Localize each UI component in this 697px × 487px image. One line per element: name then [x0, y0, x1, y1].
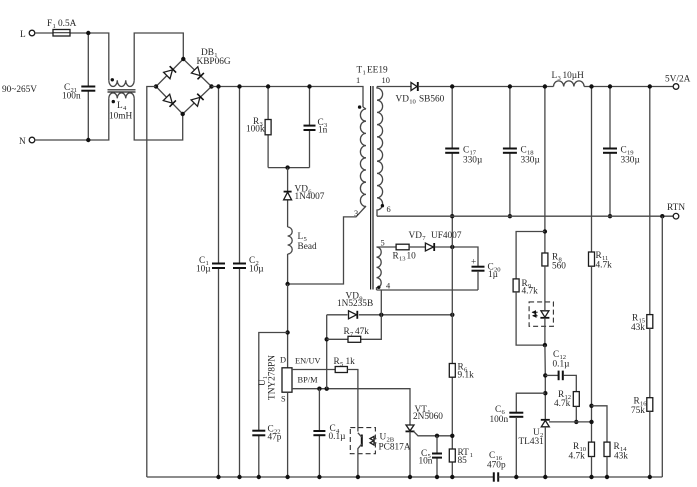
svg-text:0.1µ: 0.1µ [553, 360, 571, 370]
resistor R8 560 [542, 253, 566, 272]
svg-text:100k: 100k [246, 125, 265, 135]
capacitor C6 100n [490, 393, 546, 477]
inductor L5 Bead [288, 227, 317, 284]
wire: secondary top to VD10 [377, 86, 411, 88]
svg-text:C: C [621, 146, 627, 156]
svg-text:3: 3 [354, 209, 358, 218]
svg-text:330µ: 330µ [521, 156, 541, 166]
junction C1 top on DC+ rail [216, 84, 220, 88]
svg-text:1k: 1k [346, 357, 356, 367]
transformer T1 core [370, 86, 372, 290]
junction bridge left vertex [154, 84, 158, 88]
svg-text:5V/2A: 5V/2A [665, 75, 691, 85]
svg-text:1: 1 [356, 76, 360, 85]
svg-text:PC817A: PC817A [379, 443, 411, 453]
resistor R10 4.7k [569, 442, 595, 477]
wire: R11 divider line from 5V rail [591, 87, 593, 253]
junction C6 bottom on ground rail [514, 475, 518, 479]
wire: TL431 REF to divider node [549, 421, 592, 423]
svg-text:10mH: 10mH [109, 112, 133, 122]
junction VD9 line at bias feed line [450, 313, 454, 317]
junction on N line (C21 bottom) [86, 138, 90, 142]
node N terminal [19, 137, 35, 147]
junction C5 tap on gate wire [435, 434, 439, 438]
junction RTN drop to secondary ground rail [660, 214, 664, 218]
wire: RTN rail from pin6 to RTN terminal [377, 215, 673, 217]
junction C4 tap on BP/M line [317, 387, 321, 391]
svg-text:10µ: 10µ [196, 264, 211, 274]
svg-text:N: N [19, 137, 26, 147]
resistor R12 4.7k [554, 390, 579, 422]
svg-text:RTN: RTN [667, 203, 685, 213]
svg-text:1N5235B: 1N5235B [337, 299, 373, 309]
svg-text:D: D [280, 356, 286, 365]
svg-text:VD: VD [396, 95, 410, 105]
svg-text:C: C [489, 451, 495, 461]
svg-text:BP/M: BP/M [298, 376, 319, 385]
wire: pin4 row back from C20 [377, 289, 479, 291]
resistor RT1 85 [449, 448, 473, 466]
wire: bridge negative to primary ground rail [147, 87, 156, 478]
svg-text:KBP06G: KBP06G [197, 57, 231, 67]
junction snubber bottom to VD6 [285, 165, 289, 169]
capacitor C17 330u [445, 87, 483, 217]
svg-text:10: 10 [407, 252, 417, 262]
wire: R16 to ground rail [649, 411, 651, 477]
junction C12 tap [543, 373, 547, 377]
junction R12 bottom on REF wire [574, 420, 578, 424]
wire: EN/UV pin to R5 [292, 369, 335, 371]
capacitor C12 0.1u [545, 350, 576, 392]
capacitor C18 330u [503, 87, 541, 217]
svg-text:0.1µ: 0.1µ [329, 432, 347, 442]
junction VT1 cathode on ground rail [408, 475, 412, 479]
svg-text:47k: 47k [355, 327, 369, 337]
junction gate wire at bias feed line [450, 434, 454, 438]
svg-text:+: + [471, 258, 476, 268]
svg-text:470p: 470p [487, 461, 506, 471]
svg-text:43k: 43k [614, 452, 628, 462]
capacitor C21 100n [62, 33, 95, 140]
svg-text:10µ: 10µ [249, 265, 264, 275]
svg-text:43k: 43k [631, 323, 645, 333]
fuse F1 0.5A [47, 19, 77, 36]
junction R3 top on DC+ rail [266, 84, 270, 88]
junction zener branch on BP/M line [325, 387, 329, 391]
svg-text:9.1k: 9.1k [458, 370, 475, 380]
svg-text:6: 6 [387, 205, 391, 214]
junction RT1 bottom on ground rail [450, 475, 454, 479]
junction C6 tap [543, 391, 547, 395]
junction C3 top on DC+ rail [307, 84, 311, 88]
junction R7 left node [325, 337, 329, 341]
node 5V/2A output terminal [665, 75, 691, 90]
junction bridge bottom vertex [181, 112, 185, 116]
svg-text:1: 1 [363, 70, 366, 77]
wire: R5 to optocoupler collector [347, 370, 358, 432]
junction C22 bottom on ground rail [257, 475, 261, 479]
inductor L3 10uH [552, 71, 585, 87]
wire: bias feed line from RTN rail down to ground rail [451, 216, 453, 363]
wire: R8 to LED anode [544, 266, 546, 310]
resistor R14 43k [592, 406, 629, 477]
wire: R7 row [327, 338, 348, 340]
resistor R9 4.7k parallel branch [513, 232, 545, 346]
svg-text:C: C [495, 405, 501, 415]
svg-text:U: U [380, 433, 387, 443]
svg-text:SB560: SB560 [419, 95, 445, 105]
junction C17 top / bottom [450, 84, 454, 88]
optocoupler U2B PC817A transistor side [350, 428, 411, 477]
wire: choke top-right to bridge AC top [134, 33, 183, 80]
resistor R5 1k [334, 357, 356, 373]
svg-text:4.7k: 4.7k [596, 261, 613, 271]
wire: pin5 to R13 [377, 246, 397, 248]
wire: U1 S pin to ground rail [287, 392, 289, 477]
svg-text:4.7k: 4.7k [554, 399, 571, 409]
diode VD6 1N4007 (cathode up) [284, 168, 325, 227]
wire: L line from terminal to choke [35, 33, 109, 80]
svg-text:L: L [20, 30, 26, 40]
node L terminal [20, 30, 35, 40]
capacitor C19 330u [603, 87, 640, 217]
svg-text:Bead: Bead [298, 242, 317, 252]
svg-text:F: F [47, 19, 52, 29]
wire: BP/M pin line to VT1 anode [292, 389, 410, 425]
junction R14 bottom on ground rail [605, 475, 609, 479]
svg-text:2N5060: 2N5060 [413, 412, 443, 422]
wire: between R15 and R16 [649, 328, 651, 397]
svg-text:47p: 47p [268, 433, 282, 443]
wire: DC+ rail from bridge to transformer pin 1 [212, 87, 364, 108]
wire: 5V rail from VD10 to L3 [419, 86, 554, 88]
svg-text:330µ: 330µ [621, 156, 641, 166]
svg-text:13: 13 [399, 256, 406, 263]
junction opto emitter on ground rail [356, 475, 360, 479]
junction C1 bottom on ground rail [216, 475, 220, 479]
svg-text:4.7k: 4.7k [569, 452, 586, 462]
capacitor C1 10u [196, 87, 225, 478]
wire: pin4 node down to VD9 line [380, 290, 382, 315]
wire: primary ground bottom rail [147, 476, 494, 478]
wire: LED cathode down to TL431 cathode node [544, 318, 546, 345]
capacitor C3 1n [304, 87, 329, 168]
shunt regulator U2 TL431 [519, 420, 550, 477]
diode VD10 SB560 [396, 82, 445, 106]
wire: N line from terminal to choke [35, 98, 109, 140]
junction S pin on ground rail [285, 475, 289, 479]
svg-text:0.5A: 0.5A [58, 19, 77, 29]
svg-text:UF4007: UF4007 [431, 231, 462, 241]
svg-text:4.7k: 4.7k [522, 286, 539, 296]
zener diode VD9 1N5235B [337, 292, 373, 319]
junction R15 top on 5V rail [648, 84, 652, 88]
resistor R6 9.1k [449, 363, 474, 381]
junction R10 bottom on ground rail [589, 475, 593, 479]
junction bridge right vertex [209, 84, 213, 88]
capacitor C16 470p (Y-cap in ground rail) [487, 451, 662, 482]
svg-text:EN/UV: EN/UV [295, 357, 321, 366]
svg-text:90~265V: 90~265V [2, 85, 37, 95]
optocoupler U2B LED side [529, 302, 553, 326]
capacitor C22 47p [252, 333, 287, 478]
junction C2 bottom on ground rail [237, 475, 241, 479]
svg-text:1n: 1n [318, 126, 328, 136]
diode VD7 UF4007 [409, 231, 462, 251]
svg-text:VD: VD [409, 231, 423, 241]
svg-text:100n: 100n [490, 415, 509, 425]
junction divider/R14 branch node [589, 404, 593, 408]
wire: drain node down to U1 D pin [287, 284, 289, 368]
junction R16 bottom on ground rail [648, 475, 652, 479]
wire: R8 line from 5V rail [544, 87, 546, 254]
wire: R13 to VD7 [409, 246, 425, 248]
resistor R13 10 [393, 244, 417, 262]
wire: R15/R16 line from 5V rail [649, 87, 651, 315]
transformer T1 bias winding pins 5-4 [377, 239, 392, 291]
resistor R15 43k [631, 314, 653, 334]
svg-text:C: C [521, 146, 527, 156]
svg-text:EE19: EE19 [367, 66, 388, 76]
svg-text:10: 10 [409, 99, 416, 106]
node RTN terminal [667, 203, 685, 219]
resistor R16 75k [631, 397, 653, 417]
wire: 5V rail from L3 to output terminal [584, 86, 673, 88]
wire: VD9 line [327, 314, 348, 316]
svg-text:TNY278PN: TNY278PN [268, 355, 278, 400]
capacitor C20 1u (polarized) [471, 258, 501, 291]
junction divider/REF node [589, 420, 593, 424]
svg-text:1: 1 [53, 23, 56, 30]
svg-text:10: 10 [382, 76, 390, 85]
resistor R11 4.7k [589, 251, 613, 271]
junction C4 bottom on ground rail [317, 475, 321, 479]
wire: transformer pin3 to drain node [288, 206, 366, 284]
svg-text:10n: 10n [419, 456, 433, 466]
wire: choke bottom-right to bridge AC bottom [134, 98, 183, 140]
junction drain node (L5 / pin3 / D) [285, 282, 289, 286]
junction C2 top on DC+ rail [237, 84, 241, 88]
transformer T1 secondary winding pins 10-6 [377, 76, 391, 216]
wire: VD7 to C20 [435, 247, 478, 266]
junction VD9 line at x=381.3 [379, 313, 383, 317]
junction TL431 anode on ground rail [543, 475, 547, 479]
svg-text:5: 5 [381, 239, 385, 248]
svg-text:1N4007: 1N4007 [295, 192, 325, 202]
capacitor C2 10u [233, 87, 264, 478]
junction C22 tap on drain line [285, 330, 289, 334]
thyristor VT1 2N5060 [406, 405, 453, 477]
junction C19 top / bottom [608, 84, 612, 88]
svg-text:C: C [553, 350, 559, 360]
IC U1 TNY278PN [258, 355, 292, 404]
resistor R7 47k [344, 327, 370, 342]
junction R8/R9 top node [543, 229, 547, 233]
svg-text:75k: 75k [631, 406, 645, 416]
capacitor C5 10n [419, 436, 443, 477]
wire: divider line down through nodes [591, 266, 593, 442]
inductor L4 10mH common-mode choke [108, 78, 136, 121]
junction C18 top / bottom [508, 84, 512, 88]
junction R8 top on 5V rail [543, 84, 547, 88]
wire: zener branch vertical (VD9/R7 left node to BP/M) [326, 315, 328, 389]
bridge rectifier DB1 KBP06G [156, 48, 231, 114]
junction LED/R9 bottom node [543, 343, 547, 347]
svg-text:C: C [463, 146, 469, 156]
junction bridge top vertex [181, 57, 185, 61]
capacitor C4 0.1u [313, 389, 346, 477]
junction on L line (C21 top) [86, 31, 90, 35]
junction C5 bottom on ground rail [435, 475, 439, 479]
transformer T1 EE19 primary winding [354, 66, 388, 219]
svg-text:S: S [281, 395, 286, 404]
svg-text:1: 1 [470, 452, 473, 459]
svg-text:560: 560 [552, 262, 566, 272]
junction R11 top on 5V rail [589, 84, 593, 88]
wire: TL431 cathode line [544, 345, 546, 419]
svg-text:100n: 100n [62, 92, 81, 102]
junction VD7 output node on bias feed line [450, 245, 454, 249]
resistor R3 100k [246, 87, 271, 168]
svg-text:85: 85 [458, 456, 468, 466]
svg-text:10µH: 10µH [563, 71, 585, 81]
wire: RTN down right edge to ground rail [661, 216, 663, 477]
svg-text:TL431: TL431 [519, 437, 545, 447]
svg-text:330µ: 330µ [463, 156, 483, 166]
svg-text:1µ: 1µ [488, 270, 499, 280]
wire: snubber bottom node R3-C3 [268, 167, 309, 169]
